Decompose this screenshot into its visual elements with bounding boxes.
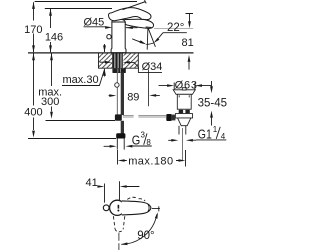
svg-text:300: 300: [41, 96, 59, 108]
svg-text:90°: 90°: [137, 230, 154, 242]
svg-text:max.30: max.30: [63, 74, 99, 86]
svg-text:G: G: [132, 132, 140, 147]
svg-text:81: 81: [181, 37, 193, 49]
svg-text:22°: 22°: [167, 22, 184, 34]
svg-text:Ø63: Ø63: [175, 79, 198, 91]
svg-text:3: 3: [141, 131, 146, 140]
svg-text:146: 146: [45, 31, 63, 43]
svg-text:G1: G1: [198, 129, 212, 142]
svg-text:4: 4: [221, 132, 226, 141]
svg-text:1: 1: [213, 125, 218, 134]
svg-text:35-45: 35-45: [198, 98, 227, 110]
svg-text:Ø45: Ø45: [84, 16, 105, 28]
svg-text:Ø34: Ø34: [142, 61, 163, 73]
svg-text:89: 89: [127, 91, 139, 103]
svg-text:41: 41: [86, 177, 98, 189]
svg-text:max.180: max.180: [128, 156, 173, 168]
svg-text:170: 170: [24, 24, 42, 36]
svg-text:400: 400: [24, 107, 42, 119]
svg-text:8: 8: [146, 138, 151, 147]
